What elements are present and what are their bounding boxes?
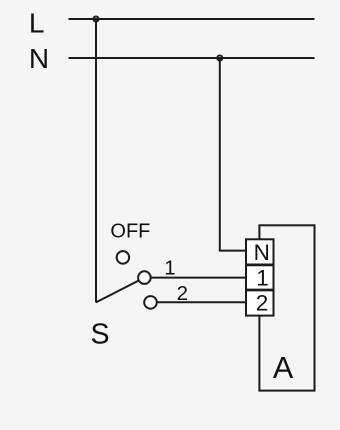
terminal divider N/1 (246, 263, 274, 266)
terminal 1 cell (246, 265, 274, 290)
svg-text:N: N (29, 43, 49, 74)
wire N to terminal N (220, 58, 246, 251)
wire L bus (69, 18, 315, 20)
svg-text:1: 1 (164, 257, 175, 280)
wire N bus (69, 57, 315, 59)
wire contact 2 to terminal 2 (151, 301, 247, 303)
svg-text:N: N (254, 240, 270, 265)
svg-text:OFF: OFF (110, 221, 150, 243)
terminal divider 1/2 (246, 289, 274, 292)
switch OFF contact (117, 251, 129, 264)
node L junction (93, 16, 98, 21)
svg-text:2: 2 (256, 290, 269, 315)
terminal N cell (246, 239, 274, 265)
wire L to switch (95, 19, 97, 302)
svg-text:A: A (273, 351, 294, 385)
svg-text:1: 1 (256, 266, 269, 291)
svg-text:L: L (29, 8, 45, 39)
svg-text:S: S (91, 318, 110, 350)
terminal 2 cell (246, 290, 274, 316)
switch contact 1 (138, 271, 151, 284)
box A (259, 225, 314, 390)
switch contact 2 (144, 296, 157, 309)
svg-text:2: 2 (177, 282, 188, 305)
node N junction (217, 55, 222, 60)
wire contact 1 to terminal 1 (144, 277, 246, 279)
switch S lever (96, 278, 144, 303)
